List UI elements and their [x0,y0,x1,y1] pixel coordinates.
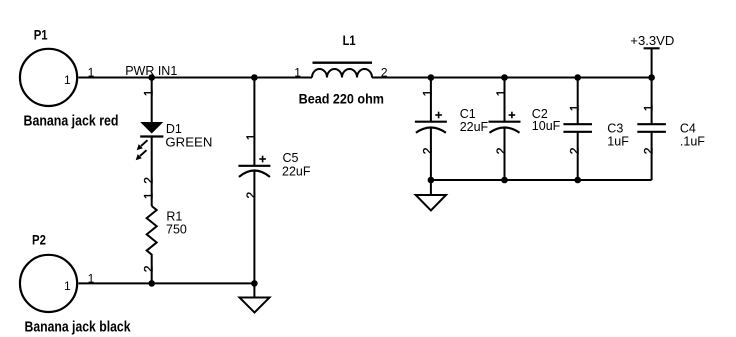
svg-text:1: 1 [88,65,95,79]
svg-text:.1uF: .1uF [680,135,705,149]
svg-text:1: 1 [64,279,71,293]
svg-text:1: 1 [567,104,581,111]
svg-text:2: 2 [244,192,258,199]
svg-text:Bead 220 ohm: Bead 220 ohm [299,91,384,107]
svg-text:D1: D1 [166,122,182,136]
svg-text:+3.3VD: +3.3VD [630,34,674,48]
svg-text:750: 750 [166,223,187,237]
svg-text:2: 2 [421,147,435,154]
svg-text:10uF: 10uF [532,119,561,133]
svg-text:1: 1 [64,73,71,87]
svg-text:1uF: 1uF [607,135,629,149]
svg-text:22uF: 22uF [460,120,489,134]
svg-text:1: 1 [88,271,95,285]
svg-text:2: 2 [141,177,155,184]
svg-text:C1: C1 [460,107,476,121]
svg-text:Banana jack black: Banana jack black [25,318,132,335]
svg-text:P2: P2 [32,231,46,247]
svg-text:R1: R1 [166,210,182,224]
svg-text:GREEN: GREEN [165,136,212,150]
svg-text:2: 2 [567,147,581,154]
svg-text:C4: C4 [680,122,696,136]
svg-text:PWR IN1: PWR IN1 [125,64,177,78]
svg-text:1: 1 [641,104,655,111]
svg-text:1: 1 [421,89,435,96]
svg-text:1: 1 [141,89,155,96]
svg-text:C3: C3 [607,122,623,136]
svg-text:2: 2 [494,147,508,154]
svg-text:Banana jack red: Banana jack red [24,112,119,129]
svg-text:2: 2 [641,147,655,154]
svg-text:L1: L1 [343,32,356,48]
svg-text:22uF: 22uF [282,164,311,178]
svg-text:P1: P1 [34,27,48,43]
svg-text:1: 1 [294,65,301,79]
svg-text:C5: C5 [283,151,299,165]
svg-text:1: 1 [494,89,508,96]
svg-text:1: 1 [141,192,155,199]
svg-text:1: 1 [244,133,258,140]
svg-text:2: 2 [381,65,388,79]
svg-text:2: 2 [141,265,155,272]
